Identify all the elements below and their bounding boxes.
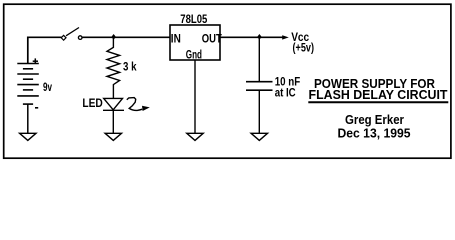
title underline <box>308 101 448 103</box>
svg-text:78L05: 78L05 <box>180 12 207 26</box>
svg-text:FLASH DELAY CIRCUIT: FLASH DELAY CIRCUIT <box>309 88 448 102</box>
svg-text:IN: IN <box>171 34 181 46</box>
resistor R1 <box>107 37 120 98</box>
LED D1 <box>103 98 124 133</box>
ground (capacitor) <box>251 133 267 140</box>
battery minus label <box>35 107 38 109</box>
ground (regulator) <box>187 133 203 140</box>
svg-text:OUT: OUT <box>202 34 222 46</box>
svg-text:(+5v): (+5v) <box>293 41 315 55</box>
ground (battery) <box>20 133 36 140</box>
node junction at resistor top <box>111 34 116 40</box>
wire Gnd pin down <box>194 60 196 133</box>
svg-text:9v: 9v <box>43 80 52 94</box>
flash arrow (light emission) <box>127 98 150 111</box>
svg-text:Gnd: Gnd <box>186 50 202 62</box>
wire switch to regulator IN <box>82 36 170 38</box>
svg-text:at IC: at IC <box>275 85 296 99</box>
svg-text:Dec 13, 1995: Dec 13, 1995 <box>338 126 411 140</box>
ground (LED) <box>105 133 121 140</box>
capacitor C1 <box>246 37 273 133</box>
border frame <box>4 4 451 158</box>
battery plus label <box>33 58 38 64</box>
switch S1 <box>61 28 82 41</box>
svg-text:LED: LED <box>82 96 103 110</box>
regulator U1 box <box>170 25 220 60</box>
node junction at capacitor top <box>257 34 262 40</box>
Vcc arrowhead <box>282 35 289 39</box>
wire battery top to switch <box>28 37 62 63</box>
svg-text:3 k: 3 k <box>123 60 137 74</box>
battery B1 9v <box>17 64 39 134</box>
svg-text:Greg Erker: Greg Erker <box>345 113 404 127</box>
wire OUT to Vcc arrow <box>220 36 283 38</box>
